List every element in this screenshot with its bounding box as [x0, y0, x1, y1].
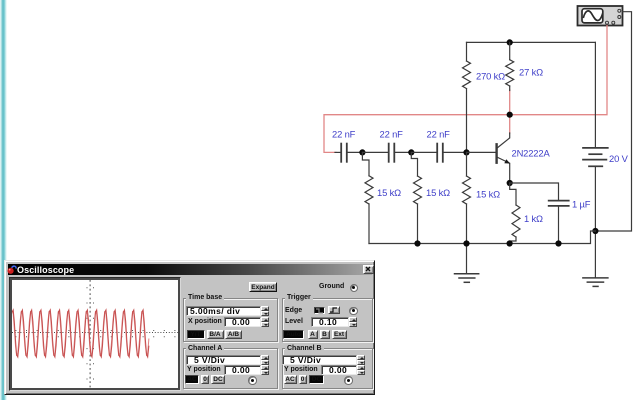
- node: R2/ground bus: [414, 240, 420, 246]
- svg-text:1 kΩ: 1 kΩ: [524, 213, 543, 224]
- node: C2/C3/R2 junction: [408, 149, 414, 155]
- svg-text:22 nF: 22 nF: [380, 129, 404, 140]
- svg-text:15 kΩ: 15 kΩ: [426, 187, 450, 198]
- wire (red): FG bottom terminal down, across to phase-shift input: [324, 26, 607, 153]
- node: base junction: [463, 149, 469, 155]
- ground (battery): [583, 278, 608, 287]
- function generator: [578, 6, 623, 26]
- svg-text:22 nF: 22 nF: [332, 129, 356, 140]
- scope display bezel: [9, 277, 182, 391]
- Trigger group: [282, 298, 373, 342]
- wire: ground bus: [369, 231, 595, 244]
- resistor R1 15 kOhm: [362, 152, 373, 243]
- wire (red): collector stub through red-wire junction: [509, 90, 511, 133]
- resistor R2 15 kOhm: [411, 152, 421, 243]
- node: R3/ground bus: [463, 240, 469, 246]
- node: 1k/ground bus: [507, 240, 513, 246]
- node: C1/C2/R1 junction: [359, 149, 365, 155]
- left toolbar edge strip: [0, 0, 7, 400]
- node: emitter junction: [507, 180, 513, 186]
- resistor 1 kOhm: [510, 183, 520, 244]
- svg-text:15 kΩ: 15 kΩ: [377, 187, 401, 198]
- Ground label: [319, 283, 344, 290]
- battery 20 V: [583, 42, 608, 277]
- transistor Q1 2N2222A: [467, 133, 511, 183]
- Time base group: [183, 298, 278, 342]
- wire: top supply rail: [467, 41, 596, 43]
- svg-text:270 kΩ: 270 kΩ: [476, 71, 505, 82]
- svg-text:27 kΩ: 27 kΩ: [519, 67, 543, 78]
- svg-text:22 nF: 22 nF: [427, 129, 451, 140]
- wire: FG right terminal to battery-bottom node: [595, 12, 631, 231]
- svg-text:2N2222A: 2N2222A: [512, 148, 551, 159]
- node: battery bottom junction: [592, 228, 598, 234]
- close button: [363, 265, 374, 274]
- svg-text:15 kΩ: 15 kΩ: [476, 189, 500, 200]
- crosshair vertical: [89, 280, 91, 388]
- title bar: [8, 264, 372, 275]
- resistor 27 kOhm: [506, 42, 514, 90]
- capacitor C2 22 nF: [362, 144, 411, 162]
- trace B: [12, 311, 149, 356]
- oscilloscope window: [4, 260, 375, 395]
- Channel A group: [183, 348, 278, 389]
- app icon: [7, 264, 20, 276]
- capacitor C1 22 nF: [335, 144, 362, 162]
- crosshair horizontal: [12, 332, 178, 334]
- svg-text:1 µF: 1 µF: [572, 199, 591, 210]
- node: 1uF/ground bus: [555, 240, 561, 246]
- ground (main): [455, 274, 479, 283]
- resistor 270 kOhm: [463, 42, 471, 152]
- node: top rail / 27k junction: [507, 39, 513, 45]
- wire: emitter to bypass cap: [510, 183, 559, 200]
- capacitor C3 22 nF: [411, 144, 466, 162]
- resistor R3 15 kOhm: [463, 152, 471, 273]
- Expand button: [249, 282, 277, 292]
- Channel B group: [282, 348, 373, 389]
- node: red wire / collector junction: [507, 112, 513, 118]
- trace A: [12, 310, 149, 357]
- capacitor 1 uF: [549, 201, 569, 244]
- svg-text:20 V: 20 V: [609, 153, 629, 164]
